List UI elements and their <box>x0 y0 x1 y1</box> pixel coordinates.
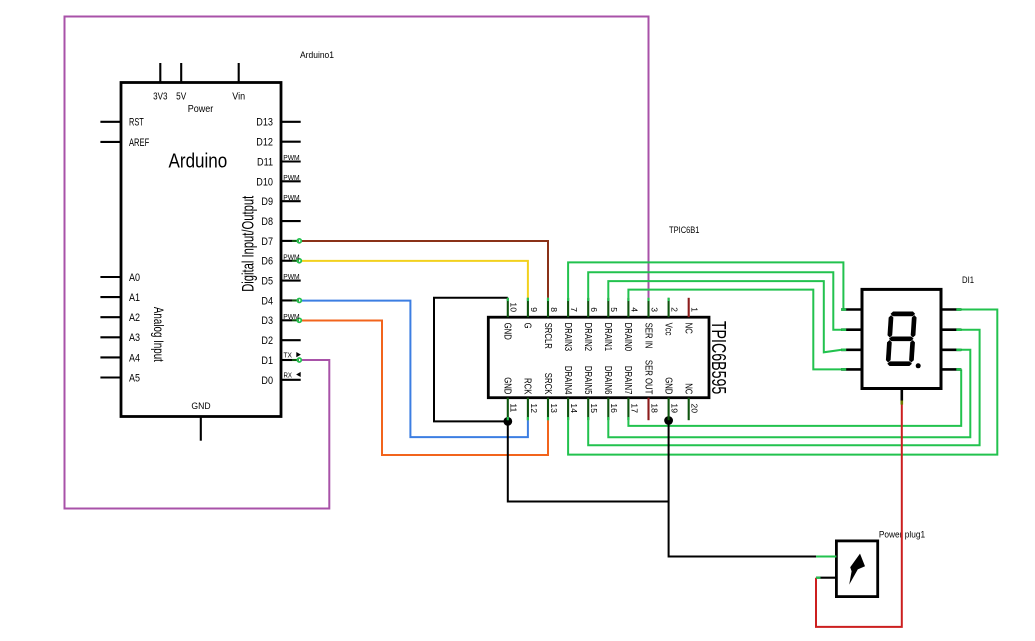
TPIC pin 9 G (top) <box>527 298 529 317</box>
wire D6 to TPIC G pin9 (yellow) <box>301 261 528 298</box>
svg-text:18: 18 <box>649 403 658 413</box>
Arduino pin D2 <box>281 339 301 341</box>
svg-text:Arduino1: Arduino1 <box>300 50 334 61</box>
svg-text:6: 6 <box>589 307 598 312</box>
wire TPIC DRAIN2 pin6 to display left pin2 (green) <box>588 272 842 329</box>
TPIC pin 14 DRAIN4 (bottom) <box>567 398 569 421</box>
svg-text:5: 5 <box>609 307 618 312</box>
display left pin 2 <box>841 328 862 331</box>
wire D7 to TPIC SRCLR pin8 (brown) <box>301 241 548 298</box>
svg-text:4: 4 <box>629 307 638 312</box>
svg-text:19: 19 <box>670 403 679 413</box>
svg-text:D2: D2 <box>261 335 273 347</box>
svg-text:DRAIN7: DRAIN7 <box>622 366 633 395</box>
wire D1/TX to TPIC SER IN pin3 (purple) <box>65 17 649 509</box>
wire TPIC DRAIN5 pin15 to display right pin2 (green) <box>588 330 979 446</box>
svg-text:Digital Input/Output: Digital Input/Output <box>239 195 257 291</box>
svg-text:PWM: PWM <box>283 312 300 321</box>
svg-text:9: 9 <box>529 307 538 312</box>
TPIC pin 3 SER IN (top) <box>647 298 649 317</box>
svg-text:PWM: PWM <box>283 272 300 281</box>
display right pin 1 <box>941 308 961 311</box>
wire D4 to TPIC RCK pin12 (blue) <box>301 301 528 438</box>
Arduino pin Vin <box>238 63 240 83</box>
TPIC pin 11 GND (bottom) <box>507 398 509 421</box>
svg-text:A4: A4 <box>129 352 140 364</box>
svg-text:TPIC6B1: TPIC6B1 <box>669 225 700 236</box>
svg-text:GND: GND <box>502 377 513 394</box>
svg-text:A2: A2 <box>129 312 140 324</box>
TPIC pin 8 SRCLR (top) <box>547 298 549 317</box>
svg-text:A0: A0 <box>129 272 140 284</box>
svg-text:D9: D9 <box>261 196 273 208</box>
TPIC pin 18 SER OUT (bottom) <box>647 398 649 421</box>
Arduino pin A3 <box>100 336 121 338</box>
display right pin 2 <box>941 328 961 331</box>
TPIC pin 7 DRAIN3 (top) <box>567 298 569 317</box>
svg-text:11: 11 <box>509 403 518 413</box>
svg-text:NC: NC <box>683 323 694 334</box>
svg-text:3: 3 <box>649 307 658 312</box>
junction dot at TPIC pin11 <box>503 417 512 426</box>
svg-text:G: G <box>522 323 533 329</box>
svg-text:SER OUT: SER OUT <box>642 360 653 395</box>
TPIC pin 2 Vcc (top) <box>668 298 670 317</box>
wire D3 to TPIC SRCK pin13 (orange) <box>301 321 548 456</box>
svg-text:A3: A3 <box>129 332 140 344</box>
Arduino pin D9 <box>281 200 301 202</box>
display right pin 4 <box>941 368 961 371</box>
svg-text:Vcc: Vcc <box>662 323 673 336</box>
wire TPIC DRAIN7 pin17 to display right pin4 (green) <box>628 369 961 426</box>
wire power plug to display common (red) <box>816 404 902 627</box>
TPIC pin 15 DRAIN5 (bottom) <box>587 398 589 421</box>
display left pin 4 <box>841 368 862 371</box>
Arduino pin D12 <box>281 141 301 143</box>
svg-text:DRAIN5: DRAIN5 <box>582 366 593 395</box>
Arduino pin D4 <box>281 299 292 301</box>
Arduino pin A5 <box>100 376 121 378</box>
svg-text:PWM: PWM <box>283 193 300 202</box>
Arduino pin A0 <box>100 276 121 278</box>
power plug pin 2 (bottom) <box>816 577 836 579</box>
svg-text:TX: TX <box>284 352 293 359</box>
svg-text:17: 17 <box>629 403 638 413</box>
Arduino pin AREF <box>100 141 121 143</box>
svg-text:NC: NC <box>683 383 694 394</box>
Power plug1 box <box>836 541 877 597</box>
svg-text:PWM: PWM <box>283 173 300 182</box>
svg-text:DI1: DI1 <box>962 275 974 286</box>
svg-text:12: 12 <box>529 403 538 413</box>
TPIC pin 19 GND (bottom) <box>668 398 670 421</box>
Arduino GND pin (bottom) <box>200 417 202 441</box>
svg-text:7: 7 <box>569 307 578 312</box>
Arduino pin D7 <box>281 240 292 242</box>
svg-text:D1: D1 <box>261 355 273 367</box>
svg-text:15: 15 <box>589 403 598 413</box>
TPIC pin 16 DRAIN6 (bottom) <box>607 398 609 421</box>
svg-text:A1: A1 <box>129 292 140 304</box>
svg-text:16: 16 <box>609 403 618 413</box>
svg-text:20: 20 <box>690 403 699 413</box>
svg-text:Vin: Vin <box>232 91 245 102</box>
svg-text:14: 14 <box>569 403 578 413</box>
wire TPIC DRAIN3 pin7 to display left pin1 (green) <box>568 262 843 309</box>
svg-text:D10: D10 <box>256 176 273 188</box>
svg-text:Analog Input: Analog Input <box>151 307 166 362</box>
decimal point <box>916 363 921 368</box>
svg-text:A5: A5 <box>129 372 140 384</box>
svg-text:DRAIN3: DRAIN3 <box>562 323 573 352</box>
TPIC pin 5 DRAIN1 (top) <box>607 298 609 317</box>
Arduino pin D3 <box>281 319 292 321</box>
svg-text:1: 1 <box>690 307 699 312</box>
svg-text:DRAIN6: DRAIN6 <box>602 366 613 395</box>
svg-text:2: 2 <box>670 307 679 312</box>
svg-text:RX: RX <box>284 372 293 379</box>
Arduino pin D0 <box>281 379 301 381</box>
svg-text:DRAIN0: DRAIN0 <box>622 323 633 352</box>
svg-text:GND: GND <box>662 377 673 394</box>
svg-text:D5: D5 <box>261 276 273 288</box>
svg-text:DRAIN4: DRAIN4 <box>562 366 573 395</box>
svg-text:DRAIN1: DRAIN1 <box>602 323 613 352</box>
Arduino pin RST <box>100 121 121 123</box>
wire TPIC GND pin10 to pin11 junction (black) <box>434 298 508 422</box>
svg-text:3V3: 3V3 <box>153 91 168 102</box>
Arduino pin D1 <box>281 359 292 361</box>
wire TPIC GND pin19 to power plug (black) <box>669 421 816 557</box>
TPIC pin 20 NC (bottom) <box>688 398 690 421</box>
Arduino pin D10 <box>281 180 301 182</box>
svg-text:RCK: RCK <box>522 378 533 395</box>
TPIC pin 1 NC (top) <box>688 298 690 317</box>
svg-text:PWM: PWM <box>283 153 300 162</box>
Arduino pin 5V <box>180 63 182 83</box>
Arduino pin D11 <box>281 160 301 162</box>
junction dot at TPIC pin19 <box>664 416 673 425</box>
svg-text:D8: D8 <box>261 216 273 228</box>
TPIC pin 10 GND (top) <box>507 298 509 317</box>
svg-text:D11: D11 <box>257 156 273 168</box>
svg-text:D3: D3 <box>261 315 273 327</box>
wire TPIC DRAIN0 pin4 to display left pin4 (green) <box>628 290 841 370</box>
svg-text:D6: D6 <box>261 256 273 268</box>
svg-text:SRCK: SRCK <box>542 373 553 395</box>
svg-text:5V: 5V <box>176 91 186 102</box>
svg-text:8: 8 <box>549 307 558 312</box>
svg-text:Power: Power <box>188 104 214 115</box>
display right pin 3 <box>941 348 961 351</box>
TPIC pin 17 DRAIN7 (bottom) <box>627 398 629 421</box>
power plug pin 1 (top) <box>816 555 836 557</box>
TPIC pin 12 RCK (bottom) <box>527 398 529 421</box>
svg-text:D4: D4 <box>261 295 273 307</box>
display common pin (bottom) <box>900 389 903 401</box>
wire TPIC DRAIN4 pin14 to display right pin1 (green) <box>568 310 997 455</box>
Arduino pin A2 <box>100 316 121 318</box>
TPIC pin 13 SRCK (bottom) <box>547 398 549 421</box>
svg-text:D12: D12 <box>256 137 273 149</box>
svg-text:Arduino: Arduino <box>169 149 228 172</box>
svg-text:RST: RST <box>129 117 144 129</box>
Arduino A1 box <box>121 83 281 417</box>
wire TPIC DRAIN1 pin5 to display left pin3 (green) <box>608 281 842 352</box>
svg-text:GND: GND <box>191 401 210 412</box>
lightning bolt icon <box>849 554 865 585</box>
Arduino pin D13 <box>281 121 301 123</box>
svg-text:D13: D13 <box>256 117 273 129</box>
svg-text:D7: D7 <box>261 236 273 248</box>
svg-text:PWM: PWM <box>283 252 300 261</box>
7-segment display DI1 box <box>862 289 941 388</box>
svg-text:13: 13 <box>549 403 558 413</box>
svg-text:10: 10 <box>509 302 518 312</box>
Arduino pin 3V3 <box>159 63 161 83</box>
wire pin11 junction to pin19 net (black) <box>508 421 669 501</box>
svg-text:D0: D0 <box>261 375 273 387</box>
display left pin 1 <box>841 308 862 311</box>
TPIC pin 4 DRAIN0 (top) <box>627 298 629 317</box>
svg-text:AREF: AREF <box>129 137 150 149</box>
7-segment digit 8 <box>886 312 917 367</box>
TPIC pin 6 DRAIN2 (top) <box>587 298 589 317</box>
svg-text:SER IN: SER IN <box>642 323 653 349</box>
Arduino pin D6 <box>281 260 292 262</box>
Arduino pin D8 <box>281 220 301 222</box>
TPIC6B595 U1 box <box>488 317 709 398</box>
Arduino pin A4 <box>100 356 121 358</box>
Arduino pin A1 <box>100 296 121 298</box>
Arduino pin D5 <box>281 280 301 282</box>
svg-text:DRAIN2: DRAIN2 <box>582 323 593 352</box>
svg-text:TPIC6B595: TPIC6B595 <box>707 321 730 395</box>
svg-text:GND: GND <box>502 323 513 340</box>
wire TPIC DRAIN6 pin16 to display right pin3 (green) <box>608 350 970 438</box>
svg-text:SRCLR: SRCLR <box>542 323 553 349</box>
display left pin 3 <box>841 348 862 351</box>
